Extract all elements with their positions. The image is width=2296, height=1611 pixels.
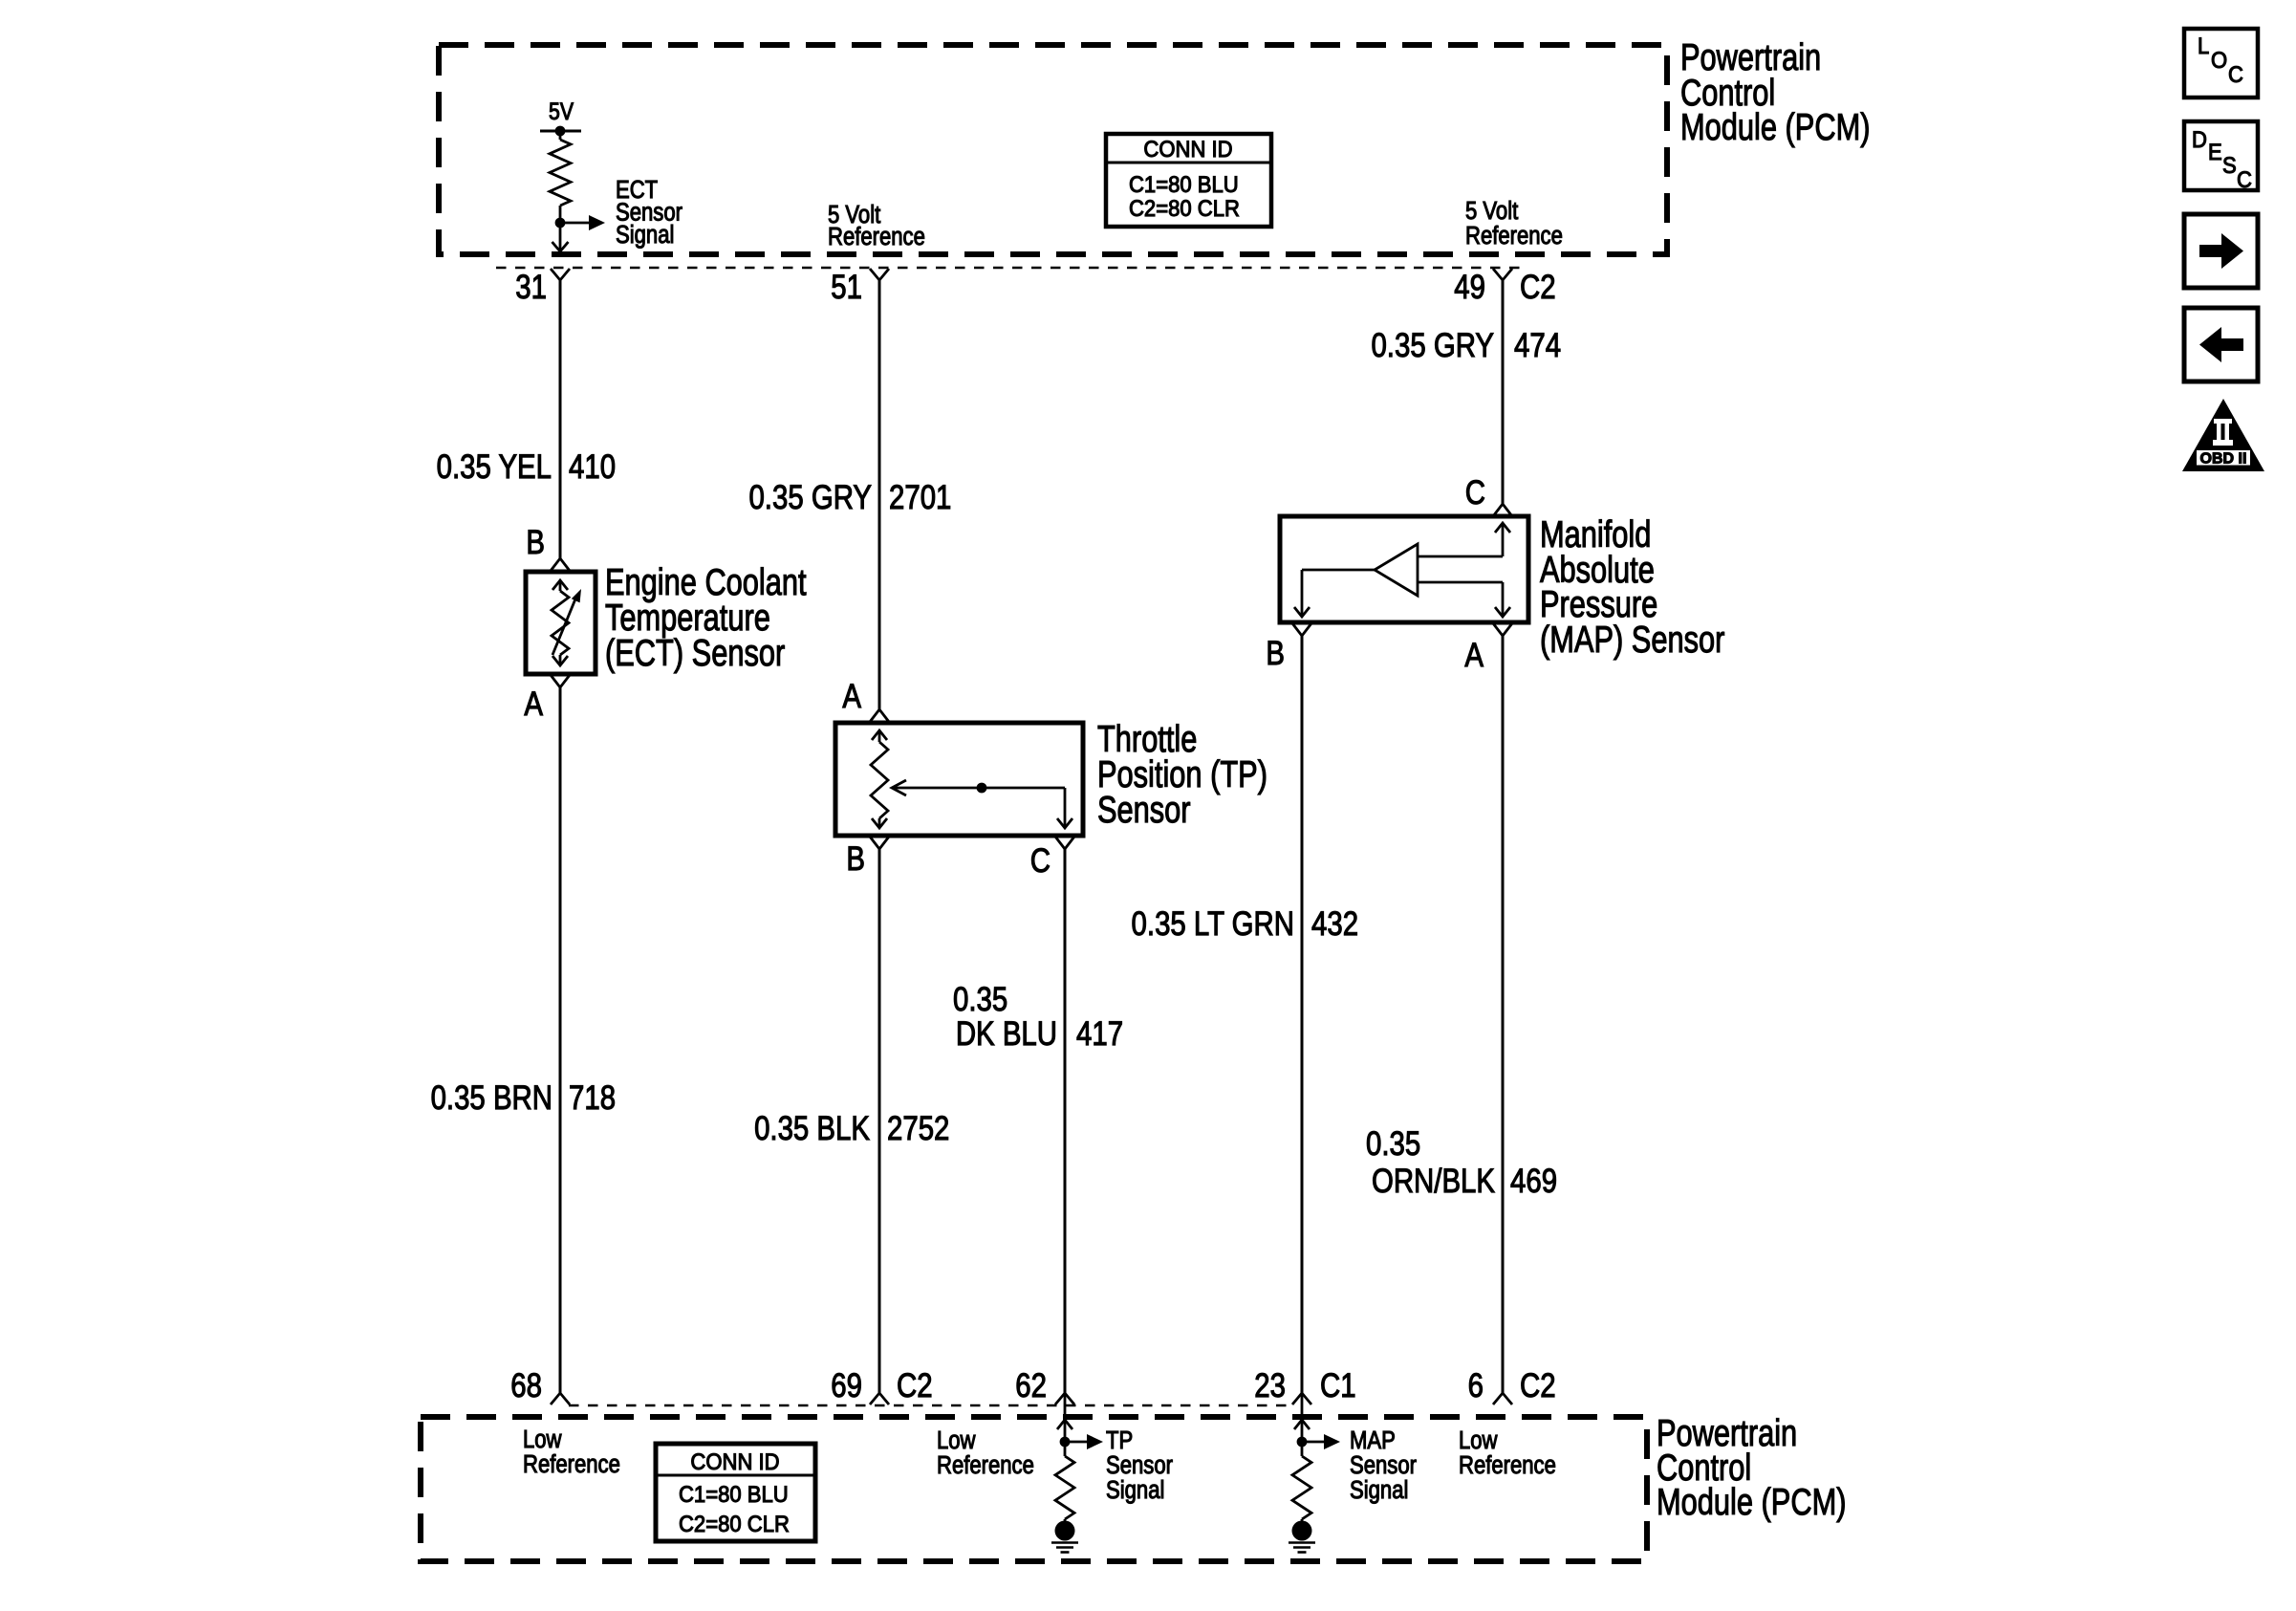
svg-text:C2=80 CLR: C2=80 CLR xyxy=(679,1511,790,1536)
svg-text:0.35 BLK: 0.35 BLK xyxy=(754,1110,870,1147)
wire: 5V rail xyxy=(540,130,581,133)
svg-text:OBD II: OBD II xyxy=(2200,451,2247,468)
terminal fork at pin 68 xyxy=(551,1393,570,1404)
svg-text:C1: C1 xyxy=(1320,1367,1356,1404)
arrow: wire into pin 31 (open down) xyxy=(552,242,569,251)
svg-text:Low: Low xyxy=(523,1426,562,1453)
wire: junction to TP Sensor Signal arrow xyxy=(1065,1441,1087,1444)
svg-text:Signal: Signal xyxy=(1106,1476,1164,1504)
svg-text:(MAP) Sensor: (MAP) Sensor xyxy=(1540,620,1725,661)
icon: back arrow box xyxy=(2184,308,2258,381)
svg-text:C1=80 BLU: C1=80 BLU xyxy=(679,1481,789,1507)
node: 5V rail junction dot xyxy=(555,126,566,137)
svg-text:E: E xyxy=(2208,139,2222,164)
svg-text:A: A xyxy=(524,686,543,723)
CONN ID table (bottom) xyxy=(656,1444,815,1541)
svg-text:Sensor: Sensor xyxy=(1097,790,1191,831)
arrow: MAP Sensor Signal (filled right) xyxy=(1324,1434,1340,1449)
wire: 0.35 GRY 2701 (pin 51 to TP A) xyxy=(878,280,881,709)
svg-text:Low: Low xyxy=(937,1426,976,1454)
svg-text:Reference: Reference xyxy=(1465,222,1563,250)
svg-text:DK BLU: DK BLU xyxy=(956,1015,1057,1053)
terminal fork at MAP pin C xyxy=(1493,504,1512,516)
resistor: TP potentiometer element xyxy=(872,730,887,740)
terminal fork at MAP pin A xyxy=(1493,623,1512,636)
svg-text:(ECT) Sensor: (ECT) Sensor xyxy=(605,633,785,674)
svg-text:C2: C2 xyxy=(897,1367,933,1404)
pin 51 terminal fork xyxy=(870,269,889,280)
wire: 0.35 DK BLU 417 (TP C to pin 62) xyxy=(1064,849,1067,1393)
MAP internal: pin C lead with up arrow xyxy=(1495,523,1510,533)
svg-text:MAP: MAP xyxy=(1350,1426,1396,1454)
connector C2 in-line (top thin dashed) xyxy=(496,267,1520,270)
svg-text:C: C xyxy=(2228,61,2243,87)
svg-text:31: 31 xyxy=(515,269,547,306)
wire: wiper to pin C xyxy=(1064,788,1067,828)
svg-text:0.35 GRY: 0.35 GRY xyxy=(1371,327,1494,364)
svg-text:Signal: Signal xyxy=(616,221,674,249)
terminal fork at MAP pin B xyxy=(1292,623,1311,636)
svg-text:469: 469 xyxy=(1510,1163,1557,1200)
PCM bottom dashed box xyxy=(421,1417,1647,1561)
svg-text:23: 23 xyxy=(1254,1367,1286,1404)
svg-text:CONN ID: CONN ID xyxy=(690,1448,779,1474)
pin 31 terminal fork xyxy=(551,269,570,280)
svg-text:Reference: Reference xyxy=(523,1450,620,1478)
svg-text:Reference: Reference xyxy=(828,223,925,250)
svg-text:Low: Low xyxy=(1459,1426,1498,1454)
terminal fork at pin 69 xyxy=(870,1393,889,1404)
svg-text:B: B xyxy=(526,524,545,561)
arrow: thermistor variable diagonal xyxy=(552,597,576,655)
svg-text:718: 718 xyxy=(569,1079,616,1117)
wire: 0.35 YEL 410 (pin 31 to ECT B) xyxy=(559,280,562,558)
wire: 0.35 GRY 474 (pin 49 to MAP C) xyxy=(1502,280,1505,504)
MAP sensor box xyxy=(1280,516,1528,622)
resistor: ECT thermistor (variable) xyxy=(552,580,568,590)
svg-text:Sensor: Sensor xyxy=(1350,1451,1417,1479)
connector in-line (bottom thin dashed) xyxy=(569,1404,1292,1407)
svg-text:A: A xyxy=(842,678,861,715)
svg-text:C: C xyxy=(1465,474,1485,512)
svg-text:C1=80 BLU: C1=80 BLU xyxy=(1129,171,1239,197)
arrow: ECT Sensor Signal (filled right) xyxy=(589,215,605,230)
icon: OBD II triangle xyxy=(2182,399,2264,471)
terminal fork at TP pin C xyxy=(1055,837,1074,849)
svg-text:5 Volt: 5 Volt xyxy=(1465,197,1519,225)
pin 23 internal: wire with up arrow xyxy=(1301,1393,1304,1442)
svg-text:C: C xyxy=(2237,166,2252,192)
svg-text:Reference: Reference xyxy=(937,1451,1034,1479)
TP wiper arm (arrow to resistor) xyxy=(892,780,906,795)
resistor: PCM internal (MAP) xyxy=(1301,1442,1304,1456)
MAP internal: amplifier triangle xyxy=(1375,544,1418,596)
svg-text:Module (PCM): Module (PCM) xyxy=(1680,107,1870,148)
ground symbol (MAP) xyxy=(1289,1541,1315,1544)
svg-text:0.35 YEL: 0.35 YEL xyxy=(437,448,552,486)
PCM top dashed box xyxy=(439,45,1667,254)
ECT sensor box xyxy=(526,572,596,674)
ground symbol (TP) xyxy=(1051,1541,1078,1544)
svg-text:A: A xyxy=(1464,637,1484,674)
svg-text:0.35: 0.35 xyxy=(953,981,1007,1018)
wire: junction to ECT Sensor Signal arrow xyxy=(560,222,589,225)
svg-text:417: 417 xyxy=(1076,1015,1123,1053)
svg-text:C: C xyxy=(1030,842,1051,880)
svg-text:0.35 LT GRN: 0.35 LT GRN xyxy=(1132,905,1294,943)
svg-text:69: 69 xyxy=(831,1367,862,1404)
svg-text:51: 51 xyxy=(831,269,862,306)
svg-text:2752: 2752 xyxy=(887,1110,949,1147)
pin 62 internal: wire with up arrow xyxy=(1064,1393,1067,1442)
svg-text:410: 410 xyxy=(569,448,616,486)
MAP internal: lower line to pin A xyxy=(1418,581,1503,584)
terminal fork at ECT pin B xyxy=(551,558,570,571)
wire: junction to MAP Sensor Signal arrow xyxy=(1302,1441,1324,1444)
icon: forward arrow box xyxy=(2184,214,2258,288)
wire: 0.35 BLK 2752 (TP B to pin 69) xyxy=(878,849,881,1393)
node: TP signal junction dot xyxy=(1060,1437,1071,1448)
svg-text:5V: 5V xyxy=(549,98,574,124)
svg-text:D: D xyxy=(2192,126,2207,152)
node: ECT signal junction dot xyxy=(555,218,566,229)
svg-text:Sensor: Sensor xyxy=(1106,1451,1173,1479)
icon: LOC box xyxy=(2184,29,2258,98)
arrow: TP Sensor Signal (filled right) xyxy=(1087,1434,1103,1449)
svg-text:Signal: Signal xyxy=(1350,1476,1408,1504)
wire: 0.35 LT GRN 432 (MAP B to pin 23) xyxy=(1301,636,1304,1393)
svg-text:49: 49 xyxy=(1454,269,1485,306)
svg-text:C2: C2 xyxy=(1520,269,1556,306)
svg-text:C2: C2 xyxy=(1520,1367,1556,1404)
terminal fork at pin 6 xyxy=(1493,1393,1512,1404)
svg-text:62: 62 xyxy=(1015,1367,1047,1404)
svg-text:Module (PCM): Module (PCM) xyxy=(1657,1482,1846,1523)
svg-text:C2=80 CLR: C2=80 CLR xyxy=(1129,195,1240,221)
wire: 0.35 BRN 718 (ECT A to pin 68) xyxy=(559,687,562,1393)
svg-text:0.35 BRN: 0.35 BRN xyxy=(431,1079,552,1117)
node: wiper junction dot xyxy=(977,783,987,794)
svg-text:B: B xyxy=(1266,635,1285,672)
svg-text:CONN ID: CONN ID xyxy=(1143,136,1232,162)
terminal fork at pin 23 xyxy=(1292,1393,1311,1404)
pin 49 terminal fork xyxy=(1493,269,1512,280)
ground ball (MAP) xyxy=(1301,1519,1304,1531)
svg-text:ORN/BLK: ORN/BLK xyxy=(1372,1163,1495,1200)
svg-text:TP: TP xyxy=(1106,1426,1133,1454)
svg-text:Reference: Reference xyxy=(1459,1451,1556,1479)
svg-text:474: 474 xyxy=(1514,327,1561,364)
terminal fork at ECT pin A xyxy=(551,675,570,687)
svg-text:432: 432 xyxy=(1311,905,1358,943)
CONN ID table (top) xyxy=(1106,134,1271,227)
icon: DESC box xyxy=(2184,121,2258,190)
svg-text:6: 6 xyxy=(1468,1367,1484,1404)
svg-text:B: B xyxy=(846,840,865,878)
svg-text:0.35: 0.35 xyxy=(1366,1125,1420,1163)
resistor R1: PCM internal pull-up (ECT) xyxy=(559,131,562,140)
svg-text:68: 68 xyxy=(510,1367,542,1404)
svg-text:L: L xyxy=(2198,33,2209,58)
svg-text:0.35 GRY: 0.35 GRY xyxy=(748,479,872,516)
svg-text:2701: 2701 xyxy=(889,479,951,516)
terminal fork at TP pin A xyxy=(870,709,889,722)
terminal fork at pin 62 xyxy=(1055,1393,1074,1404)
node: MAP signal junction dot xyxy=(1297,1437,1308,1448)
MAP internal: output line to pin B xyxy=(1302,569,1375,572)
resistor: PCM internal (TP) xyxy=(1064,1442,1067,1456)
TP sensor box xyxy=(835,723,1083,836)
terminal fork at TP pin B xyxy=(870,837,889,849)
svg-text:S: S xyxy=(2222,152,2237,178)
ground ball (TP) xyxy=(1064,1519,1067,1531)
wire: 0.35 ORN/BLK 469 (MAP A to pin 6) xyxy=(1502,636,1505,1393)
svg-text:O: O xyxy=(2211,47,2227,73)
